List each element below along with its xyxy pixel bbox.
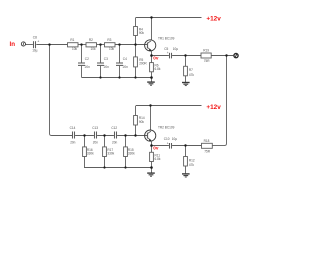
svg-text:C4: C4 xyxy=(123,57,127,61)
svg-text:20n: 20n xyxy=(70,141,75,145)
svg-text:330k: 330k xyxy=(128,152,135,156)
svg-text:20n: 20n xyxy=(123,65,128,69)
svg-text:75R: 75R xyxy=(204,150,210,154)
svg-text:20n: 20n xyxy=(93,141,98,145)
svg-text:0v: 0v xyxy=(153,55,159,60)
svg-text:C13: C13 xyxy=(92,126,98,130)
svg-text:10k: 10k xyxy=(109,47,114,51)
svg-text:330k: 330k xyxy=(87,152,94,156)
svg-text:TR2 BC109: TR2 BC109 xyxy=(158,125,175,129)
svg-text:10µ: 10µ xyxy=(173,47,178,51)
svg-text:R1: R1 xyxy=(70,38,74,42)
svg-text:90k: 90k xyxy=(139,31,144,35)
svg-text:10µ: 10µ xyxy=(172,137,177,141)
svg-text:330k: 330k xyxy=(107,152,114,156)
svg-text:+: + xyxy=(167,51,169,55)
svg-text:20n: 20n xyxy=(112,141,117,145)
svg-text:6.8k: 6.8k xyxy=(155,67,161,71)
svg-text:20n: 20n xyxy=(85,65,90,69)
svg-text:10k: 10k xyxy=(72,47,77,51)
svg-text:C12: C12 xyxy=(111,126,117,130)
svg-text:+12v: +12v xyxy=(206,104,221,111)
svg-text:200R: 200R xyxy=(139,62,147,66)
svg-text:C3: C3 xyxy=(104,57,108,61)
svg-text:90k: 90k xyxy=(139,120,144,124)
svg-text:C14: C14 xyxy=(70,126,76,130)
svg-text:10µ: 10µ xyxy=(32,48,37,52)
svg-text:47k: 47k xyxy=(189,163,194,167)
svg-text:TR1 BC109: TR1 BC109 xyxy=(158,37,175,41)
svg-text:+12v: +12v xyxy=(206,16,221,23)
svg-text:47k: 47k xyxy=(189,73,194,77)
svg-text:75R: 75R xyxy=(204,59,210,63)
svg-text:C10: C10 xyxy=(164,137,170,141)
svg-text:R19: R19 xyxy=(203,48,209,52)
svg-text:R2: R2 xyxy=(89,38,93,42)
svg-text:6.8k: 6.8k xyxy=(155,157,161,161)
svg-text:10k: 10k xyxy=(91,47,96,51)
svg-text:R12: R12 xyxy=(189,159,195,163)
svg-text:+: + xyxy=(167,141,169,145)
svg-text:R3: R3 xyxy=(107,38,111,42)
svg-text:R7: R7 xyxy=(189,68,193,72)
svg-text:0v: 0v xyxy=(153,145,159,150)
svg-text:20n: 20n xyxy=(104,65,109,69)
svg-text:+: + xyxy=(37,39,39,43)
svg-text:C5: C5 xyxy=(164,47,168,51)
svg-text:C2: C2 xyxy=(85,57,89,61)
svg-text:In: In xyxy=(10,41,16,48)
svg-text:R18: R18 xyxy=(204,139,210,143)
